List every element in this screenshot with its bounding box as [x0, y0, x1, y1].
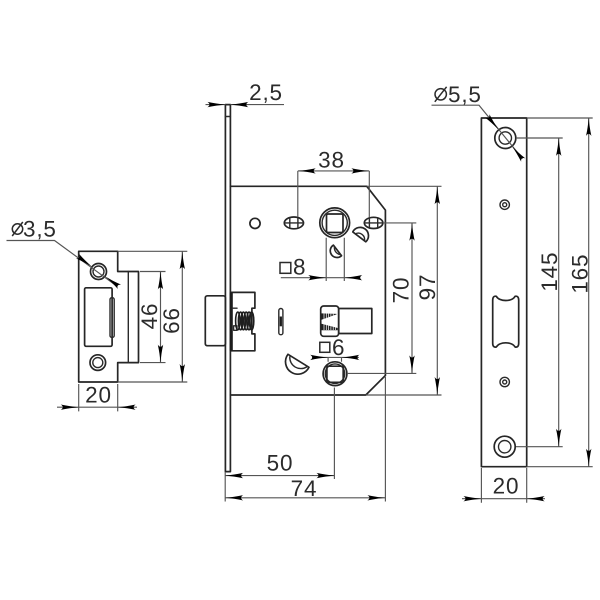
svg-text:5,5: 5,5 — [448, 82, 482, 107]
leader line for 3,5 — [7, 241, 122, 290]
dimension 20 (faceplate) — [462, 468, 545, 503]
svg-text:50: 50 — [267, 451, 294, 476]
latch spring coil — [236, 312, 254, 330]
latch bolt body — [339, 309, 372, 334]
svg-text:3,5: 3,5 — [23, 217, 57, 242]
latch head protruding — [205, 296, 225, 346]
crescent cam right of spindle — [353, 227, 369, 241]
lower pin hole front — [500, 377, 509, 386]
svg-text:38: 38 — [318, 148, 345, 173]
dimension 66 — [118, 251, 188, 382]
svg-text:70: 70 — [389, 277, 414, 304]
dimension 2,5 — [206, 80, 285, 107]
label diameter 5,5 — [435, 82, 482, 107]
dimension 20 (strike plate) — [57, 383, 137, 412]
right oval screw slot — [364, 217, 383, 228]
left oval screw slot — [284, 217, 303, 229]
upper pin hole front — [500, 200, 509, 209]
crescent inner arc lower left — [290, 357, 307, 369]
latch spring housing — [230, 292, 255, 350]
leader line for 5,5 — [432, 105, 526, 162]
strike plate lip bend line — [127, 272, 129, 363]
dimension 74 — [225, 377, 385, 502]
faceplate top cap line — [225, 116, 230, 118]
faceplate front view (right) — [481, 118, 526, 467]
crescent inner arc below — [334, 247, 340, 254]
bottom screw hole front — [494, 436, 515, 457]
dimension 165 — [527, 118, 593, 467]
dimension 38 — [298, 148, 370, 218]
svg-text:6: 6 — [332, 335, 345, 360]
lock faceplate side view (center) — [225, 105, 230, 472]
svg-text:8: 8 — [293, 255, 306, 280]
small pin hole — [250, 218, 260, 228]
strike plate tongue tab — [110, 298, 114, 338]
strike plate bottom screw hole — [90, 355, 106, 371]
latch bolt head — [321, 306, 339, 336]
strike plate top screw hole — [91, 264, 107, 280]
square 8 symbol and text — [280, 255, 306, 280]
svg-text:20: 20 — [85, 383, 112, 408]
follower capsule — [279, 309, 283, 335]
svg-text:20: 20 — [493, 474, 520, 499]
dimension 145 — [516, 138, 563, 447]
svg-text:2,5: 2,5 — [249, 80, 283, 105]
spindle column lines — [326, 238, 344, 281]
crescent inner arc right — [355, 233, 364, 241]
label diameter 3,5 — [12, 217, 56, 242]
crescent cam lower left — [286, 354, 309, 374]
dimension 46 — [137, 272, 166, 363]
crescent cam below spindle — [330, 245, 341, 257]
svg-text:97: 97 — [415, 274, 440, 301]
bottom spindle hub — [323, 362, 347, 386]
square 6 symbol and text — [320, 335, 346, 360]
dimension 6 line — [310, 355, 359, 362]
main spindle hub — [320, 208, 350, 238]
top screw hole front — [495, 128, 516, 149]
svg-text:66: 66 — [159, 307, 184, 334]
dimension 50 — [225, 451, 334, 502]
svg-text:74: 74 — [291, 476, 318, 501]
dimension 8 line — [281, 275, 363, 280]
strike plate latch opening — [85, 288, 113, 347]
lock body outline — [230, 186, 385, 395]
svg-text:165: 165 — [568, 254, 593, 294]
crossbar slot — [493, 296, 519, 347]
svg-text:145: 145 — [537, 252, 562, 292]
strike plate outline (left view) — [79, 251, 139, 382]
dimension 70 — [347, 223, 416, 374]
extension line bottom spindle — [333, 388, 335, 480]
dimension 97 — [366, 186, 442, 395]
